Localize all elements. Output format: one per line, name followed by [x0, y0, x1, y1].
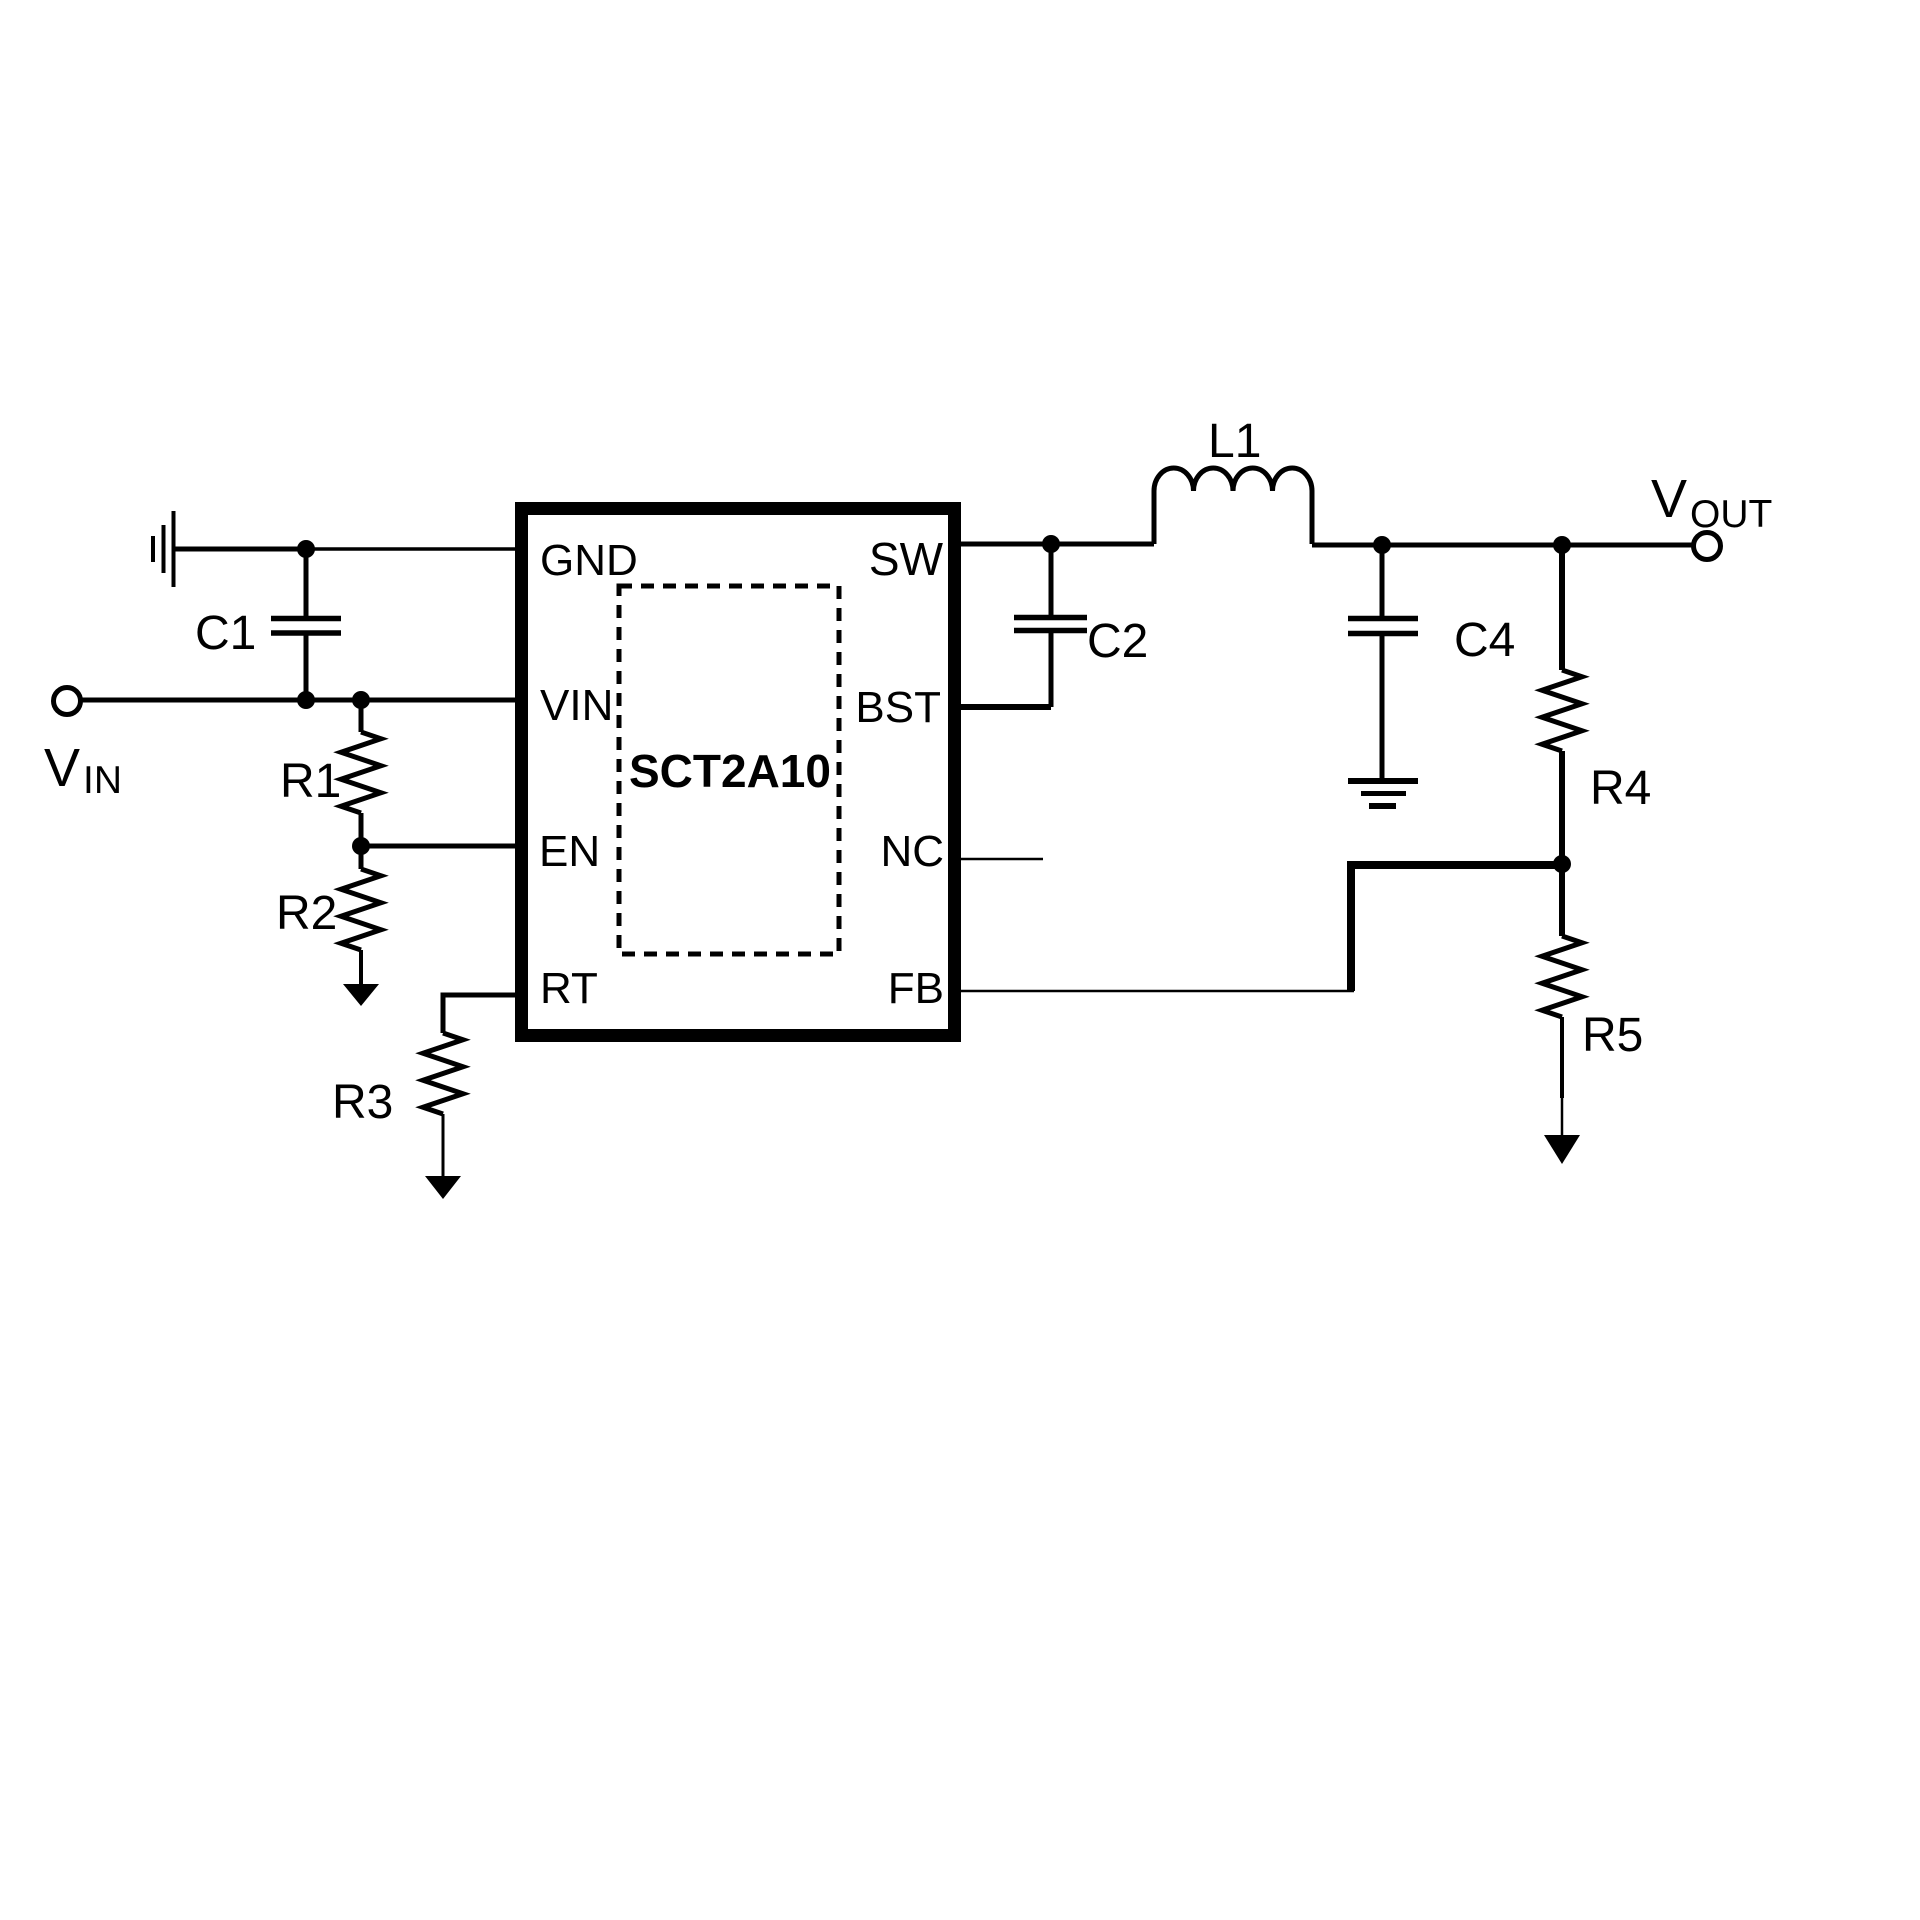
- resistor R1: [341, 700, 381, 846]
- svg-text:BST: BST: [855, 683, 941, 732]
- IC U1 SCT2A10 box: [522, 509, 955, 1036]
- svg-text:RT: RT: [540, 964, 598, 1013]
- wire ground to C1 node: [175, 547, 306, 552]
- NC stub: [961, 858, 1043, 861]
- svg-text:SW: SW: [869, 533, 944, 585]
- svg-text:L1: L1: [1208, 415, 1261, 468]
- svg-text:EN: EN: [539, 827, 600, 876]
- svg-text:C1: C1: [195, 607, 256, 660]
- node dot C1/VIN: [297, 691, 315, 709]
- svg-text:C4: C4: [1454, 614, 1515, 667]
- resistor R3: [423, 1033, 463, 1177]
- ground arrow below R3: [425, 1176, 461, 1199]
- node dot GND/C1: [297, 540, 315, 558]
- svg-text:R5: R5: [1582, 1009, 1643, 1062]
- wire L1 to VOUT: [1312, 543, 1694, 548]
- resistor R4: [1542, 545, 1582, 864]
- node dot C4: [1373, 536, 1391, 554]
- svg-text:OUT: OUT: [1690, 493, 1772, 536]
- wire FB node to FB pin (thick part): [1351, 865, 1562, 991]
- svg-text:C2: C2: [1087, 615, 1148, 668]
- node dot R1/VIN: [352, 691, 370, 709]
- wire RT pin: [443, 995, 517, 1033]
- terminal VIN: [54, 688, 81, 715]
- svg-text:R2: R2: [276, 887, 337, 940]
- svg-text:R3: R3: [332, 1076, 393, 1129]
- ground arrow below R2: [343, 984, 379, 1006]
- node dot EN: [352, 837, 370, 855]
- ground arrow below R5: [1544, 1135, 1580, 1164]
- svg-text:NC: NC: [880, 827, 944, 876]
- node dot R4: [1553, 536, 1571, 554]
- wire VIN terminal to VIN pin: [81, 698, 517, 703]
- svg-text:R1: R1: [280, 755, 341, 808]
- capacitor C1: [271, 549, 341, 700]
- capacitor C2: [1014, 544, 1087, 707]
- svg-text:R4: R4: [1590, 762, 1651, 815]
- svg-text:V: V: [44, 738, 80, 798]
- node dot SW/C2: [1042, 535, 1060, 553]
- ground (chassis) symbol top-left: [153, 511, 174, 587]
- svg-text:VIN: VIN: [540, 681, 613, 730]
- wire FB pin (thin part): [961, 990, 1354, 993]
- ground (earth) symbol below C4: [1348, 781, 1418, 806]
- svg-text:V: V: [1651, 469, 1687, 529]
- svg-text:IN: IN: [83, 759, 122, 802]
- inductor L1: [1154, 468, 1312, 544]
- wire C2 to BST pin: [961, 704, 1051, 710]
- dashed inner box: [619, 586, 839, 954]
- wire C1 node to GND pin: [306, 547, 517, 551]
- svg-text:GND: GND: [540, 536, 638, 585]
- node dot FB: [1553, 855, 1571, 873]
- wire EN node to EN pin: [361, 844, 517, 849]
- svg-text:SCT2A10: SCT2A10: [629, 745, 831, 797]
- terminal VOUT: [1694, 533, 1721, 560]
- resistor R2: [341, 846, 381, 985]
- wire SW pin to L1: [961, 542, 1154, 547]
- capacitor C4: [1348, 545, 1418, 779]
- svg-text:FB: FB: [888, 964, 944, 1013]
- resistor R5: [1542, 864, 1582, 1137]
